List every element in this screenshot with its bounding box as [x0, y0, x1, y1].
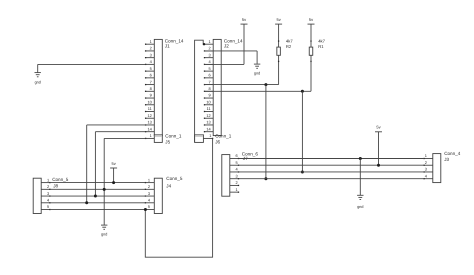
svg-text:7: 7 [150, 79, 152, 84]
ground (bottom left) [101, 225, 107, 237]
wire row 1 J8 to J4 [50, 182, 145, 184]
junction R1 branch [301, 90, 304, 93]
wire row 5 J8 to J4 [50, 209, 145, 211]
svg-text:5v: 5v [276, 17, 280, 22]
svg-text:7: 7 [209, 79, 211, 84]
wire row 3 J8 to J4 [50, 195, 145, 197]
wire R1 branch down to row C [301, 91, 303, 172]
svg-text:gnd: gnd [35, 79, 41, 84]
wire J2 pin2 to gnd [205, 50, 258, 52]
svg-text:3: 3 [148, 191, 150, 196]
svg-text:Conn_5: Conn_5 [52, 177, 69, 182]
svg-text:gnd: gnd [254, 70, 260, 75]
resistor pin ends [278, 40, 312, 62]
svg-text:3: 3 [425, 167, 427, 172]
svg-text:1: 1 [150, 133, 152, 138]
ground (top, J2 pin 2) [254, 51, 260, 75]
wire bus row C J7 to J3 [239, 171, 425, 173]
junction row D [264, 177, 267, 180]
svg-text:Conn_1: Conn_1 [165, 133, 182, 138]
connector J2 Conn_14 [204, 39, 221, 136]
wire J2 pin1 down to J6 body [195, 40, 205, 142]
ground (bottom right) [357, 195, 363, 209]
power 5v (above R2) [275, 17, 282, 24]
svg-text:5: 5 [236, 160, 238, 165]
svg-text:R2: R2 [286, 44, 292, 49]
svg-text:2: 2 [236, 180, 238, 185]
junction row2 [103, 188, 106, 191]
svg-text:Conn_4: Conn_4 [444, 151, 461, 156]
junction row C [301, 170, 304, 173]
label J4 [166, 176, 183, 188]
resistor R2 [277, 24, 281, 84]
svg-text:1: 1 [209, 133, 211, 138]
svg-text:8: 8 [209, 86, 211, 91]
wire J1 pin4 to gnd [38, 63, 146, 65]
wire bus row D J7 to J3 [239, 178, 425, 180]
svg-text:2: 2 [150, 46, 152, 51]
svg-text:9: 9 [209, 93, 211, 98]
svg-text:5v: 5v [242, 17, 246, 22]
junction row A gnd [359, 157, 362, 160]
svg-text:5: 5 [209, 66, 211, 71]
wire bus row A J7 to J3 [239, 158, 425, 160]
junction row B 5v [377, 164, 380, 167]
svg-text:11: 11 [207, 106, 211, 111]
svg-text:6: 6 [209, 73, 211, 78]
svg-text:J2: J2 [224, 44, 229, 49]
svg-text:gnd: gnd [101, 232, 107, 237]
wire R1 to J2 pin8 [205, 90, 312, 92]
label J8 [52, 177, 69, 188]
svg-text:J6: J6 [215, 139, 220, 144]
svg-text:8: 8 [150, 86, 152, 91]
power 5v (bottom right) [375, 124, 382, 131]
svg-text:9: 9 [150, 93, 152, 98]
svg-text:5: 5 [148, 204, 150, 209]
label J7 [242, 151, 259, 161]
wire bus row B J7 to J3 [239, 164, 425, 166]
svg-text:4k7: 4k7 [318, 38, 325, 43]
svg-text:J1: J1 [165, 44, 170, 49]
svg-text:1: 1 [236, 187, 238, 192]
svg-text:2: 2 [47, 184, 49, 189]
svg-text:5v: 5v [111, 161, 115, 166]
wire J1 pin14 to row3 [95, 132, 145, 196]
connector J1 Conn_14 [145, 39, 162, 136]
svg-text:11: 11 [148, 106, 152, 111]
svg-text:J5: J5 [165, 139, 170, 144]
svg-text:J3: J3 [444, 157, 449, 162]
svg-text:6: 6 [150, 73, 152, 78]
svg-text:1: 1 [47, 177, 49, 182]
label J1 [165, 38, 184, 48]
power 5v (bottom left) [110, 161, 117, 168]
junction J2 pin1 wire [203, 43, 205, 45]
svg-text:4k7: 4k7 [286, 38, 293, 43]
svg-text:13: 13 [206, 120, 210, 125]
wire 5v to row B [378, 132, 380, 165]
wire 5v to J2 pin4 [205, 24, 245, 64]
power 5v (above R1) [308, 17, 315, 24]
wire R2 to J2 pin7 [205, 84, 279, 86]
wire row 4 J8 to J4 [50, 202, 145, 204]
ground (left, J1 pin 4) [35, 64, 41, 84]
connector J4 Conn_5 [145, 177, 163, 213]
svg-text:12: 12 [147, 113, 151, 118]
svg-text:Conn_1: Conn_1 [215, 133, 232, 138]
wire 5v to row1 [113, 168, 115, 183]
connector J5 Conn_1 [145, 133, 162, 142]
label R2 [286, 38, 293, 49]
svg-text:5: 5 [150, 66, 152, 71]
connector J7 Conn_6 [222, 153, 239, 196]
label J5 [165, 133, 182, 144]
connector J6 Conn_1 [195, 133, 214, 142]
wire J1 pin13 to row4 [87, 125, 146, 203]
svg-text:5v: 5v [309, 17, 313, 22]
wire J5 pin1 to row2/gnd [104, 138, 145, 225]
junction R2 branch [264, 83, 267, 86]
svg-text:5v: 5v [376, 124, 380, 129]
power 5v (to J2 pin 4) [241, 17, 248, 24]
svg-text:J8: J8 [53, 183, 58, 188]
connector J8 Conn_5 [33, 177, 50, 213]
svg-text:3: 3 [150, 52, 152, 57]
svg-text:3: 3 [236, 173, 238, 178]
connector J3 Conn_4 [423, 153, 440, 182]
svg-text:1: 1 [425, 153, 427, 158]
svg-text:1: 1 [150, 39, 152, 44]
svg-text:3: 3 [47, 191, 49, 196]
junction row1 5v [112, 181, 115, 184]
svg-text:R1: R1 [318, 44, 324, 49]
svg-text:1: 1 [209, 39, 211, 44]
wire row 2 J8 to J4 [50, 188, 145, 190]
svg-text:gnd: gnd [357, 204, 363, 209]
junction row4 [85, 201, 88, 204]
svg-text:13: 13 [147, 120, 151, 125]
svg-text:5: 5 [47, 204, 49, 209]
svg-text:J4: J4 [166, 183, 171, 188]
wire row A to gnd [359, 159, 361, 196]
svg-text:1: 1 [148, 177, 150, 182]
label J2 [224, 38, 243, 48]
wire J6 pin1 to J4 pin5 [145, 138, 212, 257]
resistor R1 [309, 24, 313, 91]
label J3 [444, 151, 461, 162]
label R1 [318, 38, 325, 49]
wire R2 branch down to row D [265, 85, 267, 179]
svg-text:12: 12 [206, 113, 210, 118]
svg-text:6: 6 [236, 153, 238, 158]
label J6 [215, 133, 232, 144]
junction J4 pin5 [144, 208, 147, 211]
svg-text:Conn_5: Conn_5 [166, 176, 183, 181]
svg-text:2: 2 [209, 46, 211, 51]
junction row3 [94, 195, 97, 198]
svg-text:2: 2 [148, 184, 150, 189]
svg-text:3: 3 [209, 52, 211, 57]
svg-text:2: 2 [425, 160, 427, 165]
